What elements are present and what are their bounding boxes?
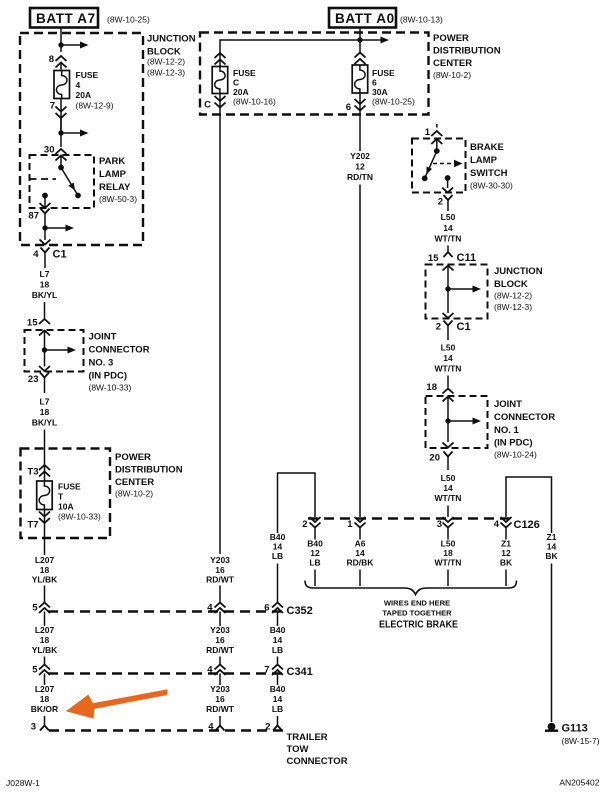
note WIRES END HERE TAPED TOGETHER: [382, 599, 452, 618]
svg-text:BK/OR: BK/OR: [31, 704, 58, 714]
svg-text:JOINT: JOINT: [494, 399, 522, 410]
wire to C352: [44, 586, 46, 604]
fuse 6 feed chevrons: [355, 53, 366, 65]
svg-text:JUNCTION: JUNCTION: [147, 34, 196, 45]
svg-text:C341: C341: [287, 666, 313, 678]
svg-text:B40: B40: [270, 532, 286, 542]
svg-text:4: 4: [207, 603, 213, 614]
svg-text:BK/YL: BK/YL: [32, 418, 58, 428]
wire into PDC: [44, 430, 46, 482]
battery feed box BATT A0: [329, 8, 396, 28]
svg-text:RD/WT: RD/WT: [206, 704, 235, 714]
svg-text:T7: T7: [27, 520, 38, 531]
svg-text:8: 8: [49, 54, 54, 65]
svg-text:CONNECTOR: CONNECTOR: [494, 412, 555, 423]
orange highlight arrow: [66, 689, 168, 718]
svg-text:CENTER: CENTER: [433, 58, 472, 69]
taped-wires brace: [305, 581, 517, 595]
svg-text:4: 4: [207, 665, 213, 676]
svg-text:14: 14: [443, 483, 453, 493]
wire from BATT A7 down into junction block: [60, 28, 62, 53]
svg-text:CONNECTOR: CONNECTOR: [89, 345, 150, 356]
connector chevrons pin 7: [56, 99, 67, 131]
svg-text:WT/TN: WT/TN: [435, 558, 462, 568]
svg-text:30: 30: [44, 145, 55, 156]
svg-text:LB: LB: [309, 558, 320, 568]
fuse 4 (20A): [54, 71, 70, 99]
wire label Y203 16 RD/WT: [206, 555, 235, 585]
svg-text:4: 4: [208, 722, 214, 733]
svg-text:L7: L7: [40, 269, 50, 279]
svg-text:(8W-10-25): (8W-10-25): [107, 15, 150, 25]
pin 4 splay connector: [216, 726, 225, 731]
svg-text:14: 14: [443, 223, 453, 233]
svg-text:PARK: PARK: [99, 156, 125, 167]
Z1 bridge wire (C126 pin 4 up and over to ground run): [506, 477, 552, 533]
svg-text:WT/TN: WT/TN: [435, 493, 462, 503]
svg-text:BRAKE: BRAKE: [470, 142, 504, 153]
park lamp relay label: [99, 156, 137, 204]
svg-text:T3: T3: [27, 467, 38, 478]
connector C1 exit chevron: [41, 248, 50, 269]
svg-text:C352: C352: [287, 605, 313, 617]
wire to C341: [44, 657, 46, 666]
svg-text:6: 6: [346, 102, 351, 113]
relay internal switch: [58, 156, 81, 198]
svg-text:TAPED TOGETHER: TAPED TOGETHER: [382, 609, 452, 618]
svg-text:BATT A7: BATT A7: [36, 11, 96, 26]
wire label L50 14 WT/TN (second): [435, 343, 462, 374]
node with branch arrow (top of fuse 4 feed): [58, 42, 88, 49]
svg-text:NO. 1: NO. 1: [494, 425, 520, 436]
pin 5 chevrons at C341: [39, 665, 50, 676]
svg-text:(IN PDC): (IN PDC): [89, 371, 128, 382]
svg-text:6: 6: [264, 603, 269, 614]
pin 4 chevrons at C126: [501, 517, 512, 528]
joint connector no.3 internals: [39, 331, 76, 371]
svg-text:L50: L50: [441, 539, 456, 549]
fuse 6 value labels: [372, 68, 415, 107]
svg-text:AN205402: AN205402: [559, 778, 599, 788]
junction block (right) internals: [443, 286, 482, 319]
pin T3 chevrons: [39, 465, 50, 477]
pin 3 chevrons at C126: [443, 517, 454, 528]
svg-text:BK: BK: [500, 558, 513, 568]
svg-text:L207: L207: [35, 555, 55, 565]
svg-text:POWER: POWER: [433, 33, 469, 44]
park lamp relay enclosure (dashed): [30, 155, 95, 208]
svg-text:JUNCTION: JUNCTION: [494, 266, 543, 277]
svg-text:Z1: Z1: [501, 539, 511, 549]
svg-text:(8W-12-9): (8W-12-9): [76, 101, 114, 111]
svg-text:FUSE: FUSE: [372, 68, 395, 78]
pin 3 splay connector: [40, 726, 49, 731]
relay pin 87 contact: [40, 193, 51, 208]
junction block label (right): [494, 266, 543, 312]
svg-text:YL/BK: YL/BK: [32, 575, 58, 585]
svg-text:RD/WT: RD/WT: [206, 645, 235, 655]
svg-text:18: 18: [40, 280, 50, 290]
svg-text:DISTRIBUTION: DISTRIBUTION: [433, 46, 501, 57]
wire fuse 6 down: [359, 112, 361, 151]
joint connector no.3 enclosure: [25, 330, 84, 372]
svg-text:14: 14: [273, 635, 283, 645]
pin 20 exit chevron: [444, 452, 453, 471]
pin 4 chevrons at C352: [215, 603, 226, 614]
pin 6 chevrons at C352: [272, 603, 283, 614]
trailer tow connector row (dashed): [49, 729, 283, 731]
svg-text:C11: C11: [457, 252, 477, 264]
relay coil dashed link: [30, 178, 57, 180]
svg-text:2: 2: [438, 197, 443, 208]
wire from BATT A0 to bus node: [359, 28, 361, 53]
svg-text:4: 4: [33, 249, 39, 260]
svg-text:1: 1: [347, 519, 353, 530]
svg-text:RD/TN: RD/TN: [347, 172, 373, 182]
long wire to C126 pin 1: [359, 185, 361, 518]
fuse C (20A): [212, 67, 228, 94]
svg-text:18: 18: [40, 694, 50, 704]
wire out of PDC: [44, 538, 46, 555]
wire to trailer tow pin 2: [277, 716, 279, 726]
svg-text:12: 12: [310, 548, 320, 558]
svg-text:LAMP: LAMP: [99, 169, 127, 180]
svg-text:RD/WT: RD/WT: [206, 575, 235, 585]
svg-text:JOINT: JOINT: [89, 332, 117, 343]
svg-text:4: 4: [494, 519, 500, 530]
ground symbol G113: [545, 723, 558, 731]
connector chevrons pin 8: [56, 56, 67, 71]
svg-text:J028W-1: J028W-1: [6, 778, 40, 788]
svg-text:C: C: [233, 78, 239, 88]
svg-text:Y203: Y203: [210, 625, 230, 635]
svg-text:16: 16: [215, 565, 225, 575]
svg-text:Y202: Y202: [350, 151, 370, 161]
bus wire with node and arrow: [220, 37, 389, 68]
svg-text:B40: B40: [307, 539, 323, 549]
svg-text:(8W-10-16): (8W-10-16): [233, 97, 276, 107]
svg-text:A6: A6: [355, 539, 366, 549]
pin 5 chevrons at C352: [39, 603, 50, 614]
wire to C126 pin 3: [447, 506, 449, 518]
svg-text:(8W-10-33): (8W-10-33): [58, 512, 101, 522]
svg-text:B40: B40: [270, 684, 286, 694]
svg-text:T: T: [58, 492, 64, 502]
brake lamp switch label: [470, 142, 513, 191]
svg-text:18: 18: [426, 382, 437, 393]
svg-text:(8W-12-3): (8W-12-3): [494, 302, 532, 312]
svg-text:15: 15: [428, 253, 439, 264]
pin 2 chevrons at C126: [310, 517, 321, 528]
svg-text:20: 20: [429, 453, 440, 464]
node with branch arrow below relay: [40, 225, 75, 245]
svg-text:BK: BK: [545, 551, 558, 561]
svg-text:(8W-15-7): (8W-15-7): [562, 736, 600, 746]
svg-text:7: 7: [50, 101, 55, 112]
pin 15 splay connector at C11: [444, 252, 453, 257]
wire label B40 12 LB: [307, 528, 323, 587]
pin 87 exit chevron: [41, 209, 50, 229]
wire to C341 col2: [219, 657, 221, 666]
wire label L7 18 BK/YL (second): [32, 397, 58, 428]
wire label L207 18 YL/BK: [32, 555, 58, 585]
svg-text:4: 4: [76, 80, 81, 90]
svg-text:(8W-10-13): (8W-10-13): [400, 15, 443, 25]
wire to C11: [447, 246, 449, 252]
svg-text:C1: C1: [457, 321, 471, 333]
connector row C341 (dashed): [48, 672, 283, 674]
brake lamp switch enclosure (dashed): [412, 139, 466, 193]
svg-text:NO. 3: NO. 3: [89, 358, 114, 369]
svg-text:14: 14: [547, 542, 557, 552]
fuse C value labels: [233, 68, 276, 107]
svg-text:B40: B40: [270, 625, 286, 635]
svg-text:DISTRIBUTION: DISTRIBUTION: [115, 465, 183, 476]
power distribution center enclosure (top, dashed): [200, 33, 429, 115]
svg-text:16: 16: [215, 694, 225, 704]
svg-text:C: C: [204, 100, 211, 111]
wire label Y202 12 RD/TN: [347, 151, 373, 182]
svg-text:87: 87: [28, 211, 39, 222]
pin 1 stub above brake lamp switch: [431, 124, 442, 136]
junction block enclosure (left, dashed): [20, 33, 143, 245]
pin 23 exit chevron: [40, 373, 49, 394]
svg-text:12: 12: [355, 162, 365, 172]
svg-text:Y203: Y203: [210, 555, 230, 565]
svg-text:FUSE: FUSE: [233, 68, 256, 78]
fuse C feed chevrons: [215, 53, 226, 65]
svg-text:23: 23: [28, 374, 39, 385]
svg-text:TOW: TOW: [287, 744, 309, 755]
svg-text:YL/BK: YL/BK: [32, 645, 58, 655]
svg-text:3: 3: [437, 519, 442, 530]
svg-text:WT/TN: WT/TN: [435, 234, 462, 244]
fuse 6 (30A): [352, 65, 368, 93]
connector C1 exit chevron (right): [444, 321, 453, 341]
wire label L50 14 WT/TN (first): [435, 212, 462, 244]
pin 6 chevrons: [355, 93, 366, 112]
wire label L50 18 WT/TN: [435, 528, 462, 587]
svg-text:(8W-12-2): (8W-12-2): [147, 57, 185, 67]
power distribution center label (left): [115, 452, 183, 499]
svg-text:TRAILER: TRAILER: [287, 732, 328, 743]
pin T7 chevrons: [39, 510, 50, 539]
brake switch internal contacts: [422, 148, 440, 181]
svg-text:18: 18: [40, 565, 50, 575]
svg-text:BATT A0: BATT A0: [335, 11, 395, 26]
svg-text:LB: LB: [272, 645, 283, 655]
trailer tow connector label: [287, 732, 348, 767]
svg-text:L50: L50: [441, 343, 456, 353]
svg-text:RELAY: RELAY: [99, 182, 131, 193]
svg-text:Z1: Z1: [547, 532, 557, 542]
wire label L7 18 BK/YL: [32, 269, 58, 300]
svg-text:C126: C126: [514, 519, 540, 531]
svg-text:BK/YL: BK/YL: [32, 290, 58, 300]
svg-text:15: 15: [27, 318, 38, 329]
wire to trailer tow connector: [44, 716, 46, 726]
svg-text:LB: LB: [272, 704, 283, 714]
svg-text:2: 2: [436, 322, 441, 333]
wire label B40 14 LB (lower): [270, 674, 286, 715]
joint connector no.3 label: [89, 332, 150, 393]
joint connector no.1 label: [494, 399, 555, 460]
wire label Z1 12 BK: [500, 528, 513, 587]
svg-text:LAMP: LAMP: [470, 155, 498, 166]
svg-text:(8W-10-25): (8W-10-25): [372, 97, 415, 107]
wire to C352 col2: [219, 586, 221, 604]
svg-text:10A: 10A: [58, 502, 74, 512]
wire label L207 18 YL/BK (second): [32, 612, 58, 656]
svg-text:12: 12: [501, 548, 511, 558]
svg-text:CONNECTOR: CONNECTOR: [287, 756, 348, 767]
svg-text:L50: L50: [441, 212, 456, 222]
brake switch entry chevron: [431, 139, 442, 151]
svg-text:14: 14: [273, 542, 283, 552]
pin 7 chevrons at C341: [272, 665, 283, 676]
svg-text:ELECTRIC BRAKE: ELECTRIC BRAKE: [379, 620, 458, 631]
svg-text:1: 1: [425, 127, 431, 138]
svg-text:FUSE: FUSE: [58, 482, 81, 492]
svg-text:5: 5: [32, 603, 38, 614]
B40 bridge wire (C352 up and over to C126 pin 2): [278, 473, 316, 533]
power distribution center enclosure (left, dashed): [21, 449, 111, 539]
joint connector no.1 enclosure: [426, 396, 488, 448]
svg-text:14: 14: [443, 353, 453, 363]
junction block entry chevron: [443, 266, 454, 314]
svg-text:(IN PDC): (IN PDC): [494, 438, 533, 449]
fuse T (10A): [37, 481, 53, 510]
svg-text:SWITCH: SWITCH: [470, 168, 508, 179]
svg-text:L207: L207: [35, 625, 55, 635]
wire label L50 14 WT/TN (third): [435, 473, 462, 503]
svg-text:WT/TN: WT/TN: [435, 364, 462, 374]
wire to relay with branch node: [58, 118, 88, 147]
wire label B40 14 LB (upper): [270, 532, 286, 561]
svg-text:(8W-30-30): (8W-30-30): [470, 181, 513, 191]
svg-text:18: 18: [443, 548, 453, 558]
pin 1 chevrons at C126: [355, 517, 366, 528]
svg-text:(8W-10-2): (8W-10-2): [115, 489, 153, 499]
svg-text:WIRES END HERE: WIRES END HERE: [384, 599, 450, 608]
svg-text:2: 2: [265, 722, 270, 733]
pin 2 exit chevron: [444, 195, 453, 211]
svg-text:FUSE: FUSE: [76, 70, 99, 80]
pin 30 connector chevrons: [56, 149, 67, 161]
wire label B40 14 LB (middle): [270, 612, 286, 656]
svg-text:20A: 20A: [233, 87, 249, 97]
fuse T value labels: [58, 482, 101, 522]
svg-text:(8W-50-3): (8W-50-3): [99, 194, 137, 204]
svg-text:C1: C1: [53, 249, 67, 261]
connector row C352 (dashed): [48, 610, 283, 612]
svg-text:18: 18: [40, 635, 50, 645]
brake switch actuation dashed arrow: [433, 160, 463, 167]
svg-text:RD/BK: RD/BK: [347, 558, 375, 568]
power distribution center label (top): [433, 33, 501, 80]
pin 2 splay connector: [273, 726, 282, 731]
wire to trailer tow pin 4: [219, 716, 221, 726]
battery feed box BATT A7: [30, 8, 98, 28]
svg-text:14: 14: [355, 548, 365, 558]
ground run wire to G113: [551, 564, 553, 723]
svg-text:(8W-10-24): (8W-10-24): [494, 450, 537, 460]
svg-text:18: 18: [40, 407, 50, 417]
wire label L207 18 BK/OR: [31, 674, 58, 715]
brake switch output contact: [442, 175, 453, 192]
svg-text:20A: 20A: [76, 90, 92, 100]
svg-text:14: 14: [273, 694, 283, 704]
pin 18 chevrons: [443, 389, 454, 402]
junction block label: [147, 34, 196, 78]
svg-text:5: 5: [32, 665, 38, 676]
wire to C341 pin 7: [277, 657, 279, 666]
svg-text:G113: G113: [562, 723, 588, 735]
svg-text:(8W-12-3): (8W-12-3): [147, 68, 185, 78]
pin C chevrons: [215, 94, 226, 109]
wire label A6 14 RD/BK: [347, 528, 375, 587]
svg-text:30A: 30A: [372, 87, 388, 97]
svg-text:L7: L7: [40, 397, 50, 407]
wire label Y203 16 RD/WT (second): [206, 612, 235, 656]
connector row C126 (dashed): [308, 517, 512, 519]
svg-text:L50: L50: [441, 473, 456, 483]
svg-text:POWER: POWER: [115, 452, 151, 463]
svg-text:2: 2: [302, 519, 307, 530]
pin 15 chevrons: [39, 319, 50, 336]
svg-text:L207: L207: [35, 684, 55, 694]
wire to C352 pin 6: [277, 564, 279, 604]
wire to joint connector no.1: [447, 376, 449, 388]
joint connector no.1 internals: [443, 397, 482, 448]
svg-text:6: 6: [372, 78, 377, 88]
svg-text:BLOCK: BLOCK: [494, 279, 528, 290]
long wire fuse C to C352: [219, 108, 221, 554]
svg-text:16: 16: [215, 635, 225, 645]
svg-text:(8W-10-33): (8W-10-33): [89, 383, 132, 393]
wire: [44, 302, 46, 318]
svg-text:(8W-10-2): (8W-10-2): [433, 70, 471, 80]
svg-text:(8W-12-2): (8W-12-2): [494, 291, 532, 301]
svg-text:Y203: Y203: [210, 684, 230, 694]
wire label Y203 16 RD/WT (third): [206, 674, 235, 715]
svg-text:7: 7: [264, 665, 269, 676]
svg-text:CENTER: CENTER: [115, 477, 154, 488]
junction block enclosure (right, dashed): [426, 265, 488, 319]
svg-text:3: 3: [31, 722, 36, 733]
svg-text:LB: LB: [272, 551, 283, 561]
pin 4 chevrons at C341: [215, 665, 226, 676]
fuse 4 value labels: [76, 70, 114, 111]
wire label Z1 14 BK: [545, 532, 558, 561]
